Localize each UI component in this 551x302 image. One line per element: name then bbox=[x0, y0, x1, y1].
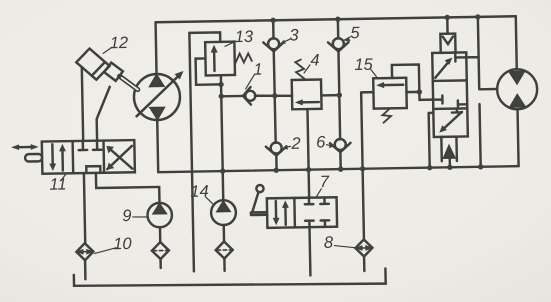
check valve 5 bbox=[337, 19, 340, 38]
double arrow (movement) bbox=[17, 146, 33, 149]
filter 8 bbox=[355, 239, 372, 256]
label 8 bbox=[334, 245, 355, 248]
valve 7 lever actuator bbox=[256, 185, 263, 192]
svg-text:5: 5 bbox=[350, 24, 360, 42]
check valve 2 bbox=[271, 142, 282, 153]
filter 10 bbox=[76, 243, 93, 260]
svg-text:7: 7 bbox=[320, 173, 330, 191]
wire valve 4 right port bbox=[321, 94, 339, 97]
svg-text:13: 13 bbox=[235, 28, 255, 46]
hydraulic motor M bbox=[497, 69, 538, 110]
check valve 1 bbox=[221, 95, 243, 98]
label 9 bbox=[133, 216, 147, 219]
main valve section 3 arrow bbox=[442, 112, 462, 130]
svg-text:12: 12 bbox=[110, 34, 129, 52]
wire filter 8 line bbox=[363, 256, 366, 271]
wire valve 11 to filter 10 bbox=[84, 173, 85, 243]
label 4 bbox=[304, 65, 310, 73]
reducing valve 15 bbox=[373, 78, 407, 109]
svg-text:3: 3 bbox=[289, 26, 299, 44]
valve 11 middle section blocked ports bbox=[78, 141, 87, 150]
svg-text:6: 6 bbox=[316, 133, 326, 151]
main valve section 2 blocked ports bbox=[433, 96, 442, 104]
top pilot block of main valve bbox=[440, 34, 455, 53]
flow control valve 4 bbox=[292, 80, 322, 110]
valve 13 pilot loop bbox=[189, 32, 220, 42]
valve 11 left section arrows bbox=[51, 144, 54, 167]
wire valve 15 left port down to filter 8 bbox=[361, 92, 376, 239]
filter under pump 9 bbox=[152, 242, 169, 259]
relief valve 13 bbox=[205, 42, 235, 76]
valve 11 right section crossed arrows bbox=[107, 146, 132, 169]
svg-text:4: 4 bbox=[310, 51, 320, 69]
wire cylinder right port to valve 11 bbox=[96, 87, 111, 141]
svg-text:2: 2 bbox=[290, 135, 301, 153]
wire main valve S1 to motor bbox=[466, 17, 498, 90]
valve 11 plunger actuator bbox=[25, 154, 42, 162]
svg-text:11: 11 bbox=[49, 176, 66, 194]
label 5 bbox=[344, 37, 351, 41]
pump 14 bbox=[211, 200, 236, 225]
spring of valve 15 bbox=[382, 109, 391, 123]
bottom pilot block of main valve bbox=[441, 137, 457, 162]
pump 9 bbox=[147, 203, 172, 228]
wire valve 15 output to main valve bbox=[406, 92, 433, 100]
svg-text:10: 10 bbox=[113, 235, 133, 253]
directional valve 11 bbox=[42, 140, 135, 174]
spring of valve 4 bbox=[295, 59, 304, 79]
check valve 6 bbox=[335, 139, 346, 150]
wire pump P to rail bbox=[154, 22, 157, 74]
wire valve 13 drain to tank bbox=[189, 33, 194, 272]
label 6 bbox=[326, 145, 332, 147]
svg-text:1: 1 bbox=[253, 61, 263, 79]
wire pump suction down bbox=[156, 120, 159, 172]
main directional valve (3-position, vertical) bbox=[432, 52, 468, 137]
wire cylinder left port to valve 11 bbox=[82, 67, 83, 141]
wire valve 4 bottom to valve 7 bbox=[307, 109, 309, 198]
valve 15 pilot loop bbox=[392, 64, 420, 92]
label 2 bbox=[284, 146, 290, 148]
wire between check valves 3 and 2 bbox=[274, 51, 276, 142]
cylinder C12 (stroke-control cylinder, tilted) bbox=[76, 48, 110, 80]
filter under pump 14 bbox=[216, 241, 233, 258]
wire main valve S3 left down bbox=[429, 113, 435, 168]
valve 13 inner pilot stub bbox=[196, 58, 221, 85]
wire valve 11 to pump 9 bbox=[96, 172, 160, 204]
wire top supply rail bbox=[156, 16, 516, 22]
label 11 bbox=[61, 174, 66, 181]
spring of valve 13 bbox=[235, 53, 252, 63]
svg-text:15: 15 bbox=[354, 56, 374, 74]
valve 7 right section blocked ports bbox=[305, 198, 314, 205]
check valve 3 bbox=[272, 20, 275, 38]
svg-text:9: 9 bbox=[122, 207, 132, 225]
label 15 bbox=[370, 68, 376, 77]
wire valve 13 output down to pump 14 bbox=[221, 75, 223, 200]
wire valve 7 drain bbox=[308, 227, 311, 275]
svg-text:8: 8 bbox=[324, 234, 334, 252]
wire long return line bbox=[158, 166, 518, 172]
label 12 bbox=[103, 47, 112, 53]
label 1 bbox=[245, 74, 254, 89]
main valve section 1 arrow bbox=[435, 61, 450, 78]
label 13 bbox=[225, 41, 236, 46]
wire main valve S2 right down bbox=[480, 104, 481, 167]
label 10 bbox=[94, 248, 116, 254]
wire between check valves 5 and 6 bbox=[338, 51, 340, 139]
label 3 bbox=[282, 39, 290, 42]
pump P (variable displacement, reversible) bbox=[134, 74, 181, 121]
tank line bbox=[74, 269, 386, 289]
directional valve 7 bbox=[267, 197, 337, 228]
svg-text:14: 14 bbox=[190, 183, 209, 201]
label 14 bbox=[205, 197, 213, 205]
valve 7 left section arrows bbox=[275, 201, 278, 221]
label 7 bbox=[316, 189, 321, 197]
